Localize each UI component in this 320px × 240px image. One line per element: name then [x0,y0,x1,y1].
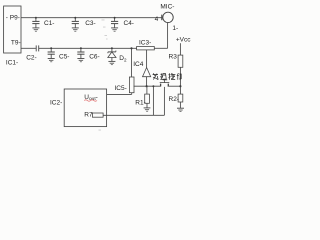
svg-text:IC1-: IC1- [6,59,18,66]
svg-text:1-: 1- [172,25,178,32]
svg-text:R1-: R1- [135,99,145,106]
svg-text:R2-: R2- [169,96,179,103]
svg-text:R7: R7 [84,111,93,118]
svg-text:T9-: T9- [11,40,21,47]
svg-text:MIC-: MIC- [160,3,174,10]
svg-text:C2-: C2- [26,55,36,62]
svg-text:C4-: C4- [124,20,134,27]
svg-text:C3-: C3- [85,20,95,27]
svg-text:C5-: C5- [59,54,69,61]
svg-text:IC3-: IC3- [139,40,151,47]
svg-text:IC2-: IC2- [50,99,62,106]
svg-text:- P9-: - P9- [6,15,20,22]
svg-text:R3: R3 [169,53,178,60]
svg-text:+Vcc: +Vcc [176,37,191,44]
svg-text:C1-: C1- [44,20,54,27]
svg-text:4: 4 [155,16,159,23]
svg-text:IC4: IC4 [133,61,144,68]
svg-text:IC5-: IC5- [115,85,127,92]
svg-text:C6-: C6- [89,54,99,61]
